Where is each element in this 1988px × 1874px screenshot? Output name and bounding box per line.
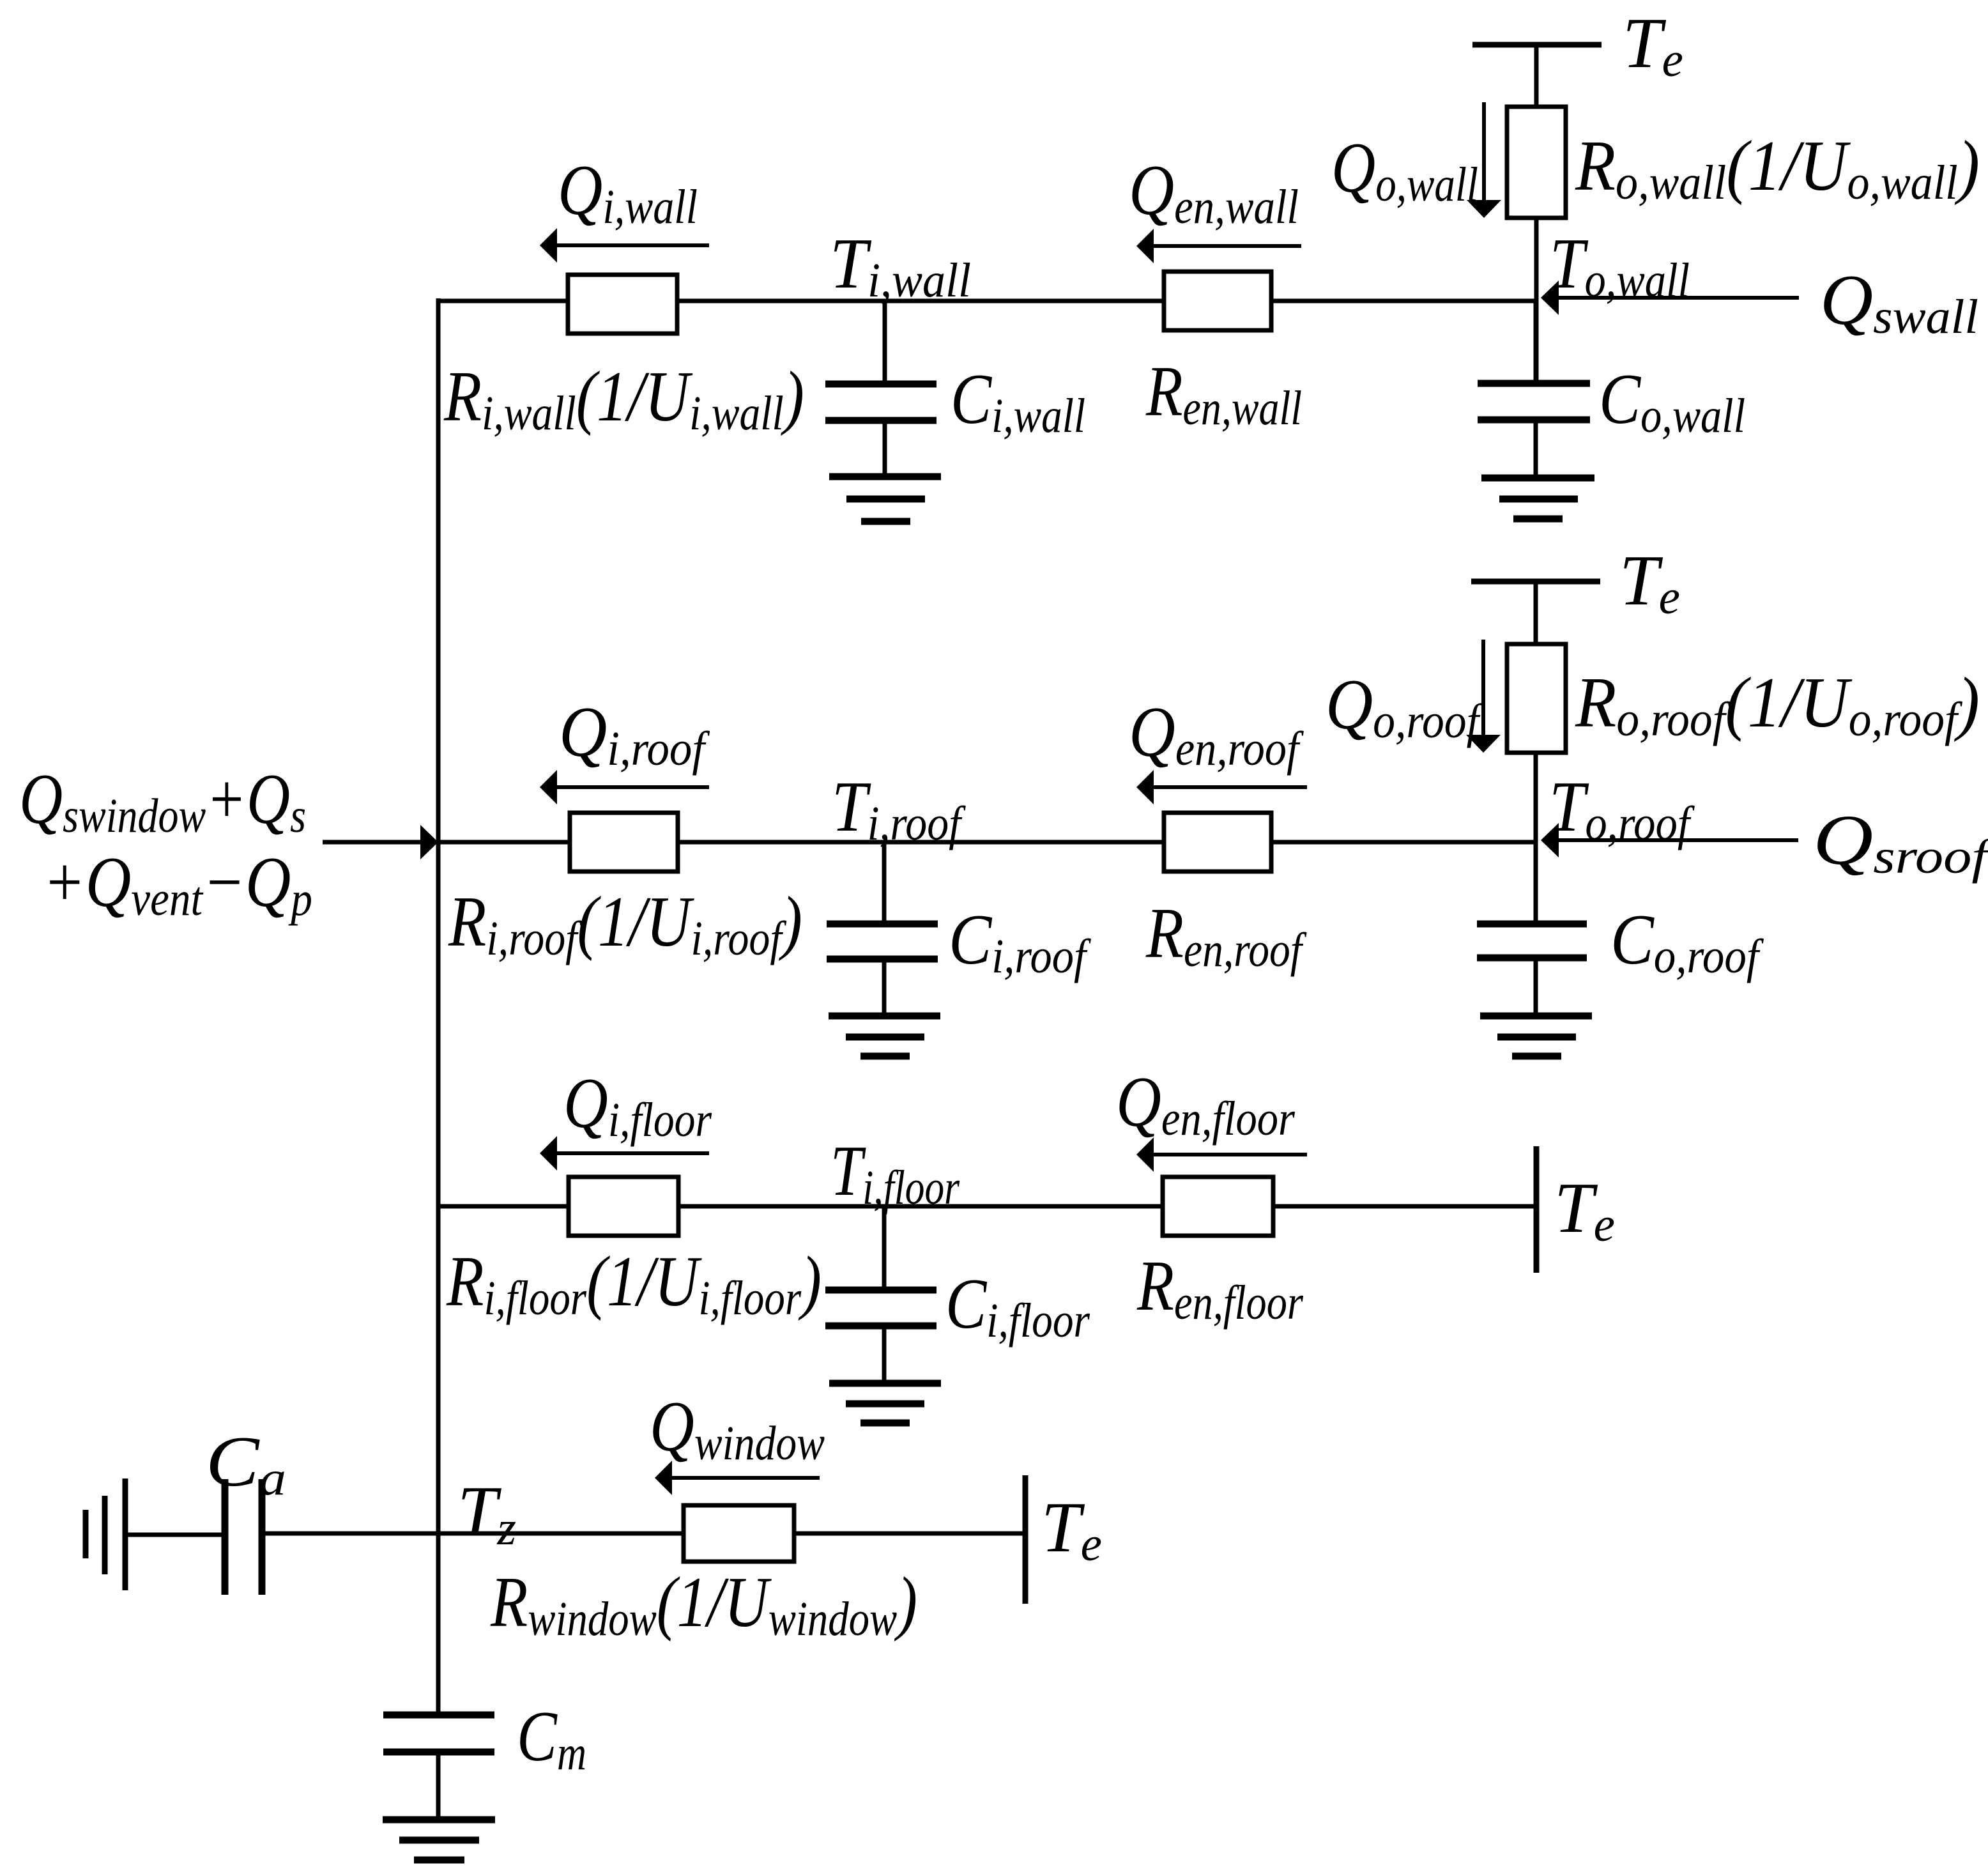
terminal T_e top (roof) xyxy=(1471,581,1600,644)
svg-text:Qen,wall: Qen,wall xyxy=(1129,151,1299,234)
heat flow arrow Q_i,roof xyxy=(540,770,709,804)
svg-text:Cm: Cm xyxy=(517,1697,586,1780)
heat flow arrow Q_o,roof (down) xyxy=(1466,640,1501,753)
wire wall row middle segment xyxy=(677,299,1536,303)
svg-text:Te: Te xyxy=(1041,1488,1102,1571)
svg-text:Qi,floor: Qi,floor xyxy=(563,1064,712,1147)
heat flow arrow Q_o,wall (down) xyxy=(1467,102,1501,218)
svg-text:Ren,roof: Ren,roof xyxy=(1145,894,1307,977)
heat gains input arrow into zone node xyxy=(323,825,438,859)
svg-text:To,wall: To,wall xyxy=(1550,224,1690,307)
capacitor C_i,roof xyxy=(827,842,938,1016)
heat flow arrow Q_swall (into node) xyxy=(1541,280,1799,315)
svg-text:Co,wall: Co,wall xyxy=(1599,360,1745,443)
wire from C_a to R_window xyxy=(262,1532,684,1536)
svg-text:Tz: Tz xyxy=(457,1472,516,1555)
svg-text:Ci,roof: Ci,roof xyxy=(949,900,1091,983)
resistor R_en,floor xyxy=(1163,1177,1273,1236)
svg-text:Te: Te xyxy=(1554,1169,1615,1252)
capacitor C_a (series) xyxy=(225,1479,262,1595)
heat flow arrow Q_i,wall xyxy=(540,228,709,263)
svg-text:Ri,floor(1/Ui,floor): Ri,floor(1/Ui,floor) xyxy=(446,1242,822,1325)
resistor R_i,roof xyxy=(570,813,678,872)
resistor R_i,floor xyxy=(569,1177,678,1236)
wire floor row left segment xyxy=(436,1204,569,1209)
resistor R_o,wall xyxy=(1507,107,1566,218)
ground under C_i,wall xyxy=(829,477,941,521)
resistor R_en,wall xyxy=(1164,272,1271,330)
svg-text:Ri,roof(1/Ui,roof): Ri,roof(1/Ui,roof) xyxy=(448,882,802,965)
wire roof row left segment xyxy=(436,840,570,845)
svg-text:Ri,wall(1/Ui,wall): Ri,wall(1/Ui,wall) xyxy=(443,357,804,440)
svg-text:Ci,floor: Ci,floor xyxy=(945,1264,1090,1348)
ground under C_i,floor xyxy=(829,1383,941,1423)
node T_o,roof junction vertical wire xyxy=(1534,753,1538,924)
svg-text:Ti,roof: Ti,roof xyxy=(832,767,966,850)
heat flow arrow Q_en,roof xyxy=(1136,770,1307,804)
svg-text:Qswall: Qswall xyxy=(1820,261,1978,344)
ground under C_m xyxy=(383,1820,495,1860)
svg-text:Qwindow: Qwindow xyxy=(650,1387,825,1470)
wire wall row left segment xyxy=(436,299,568,303)
svg-text:Ro,wall(1/Uo,wall): Ro,wall(1/Uo,wall) xyxy=(1575,127,1980,210)
ground under C_o,roof xyxy=(1480,1016,1592,1056)
node T_o,wall junction vertical wire xyxy=(1534,218,1539,384)
svg-text:To,roof: To,roof xyxy=(1549,767,1695,850)
wire from R_window to Te xyxy=(794,1532,1025,1536)
wire from ground to C_a xyxy=(125,1533,225,1537)
heat flow arrow Q_en,wall xyxy=(1136,229,1301,263)
svg-text:Qo,wall: Qo,wall xyxy=(1331,128,1478,211)
svg-text:Ren,wall: Ren,wall xyxy=(1145,352,1302,435)
terminal T_e right (floor) xyxy=(1534,1146,1540,1273)
svg-text:Qo,roof: Qo,roof xyxy=(1326,665,1484,748)
heat flow arrow Q_i,floor xyxy=(540,1136,709,1171)
wire floor row right segment to Te xyxy=(678,1204,1536,1209)
svg-text:Ci,wall: Ci,wall xyxy=(951,360,1085,443)
capacitor C_o,roof xyxy=(1477,924,1587,1016)
resistor R_en,roof xyxy=(1164,813,1271,872)
capacitor C_m xyxy=(383,1533,494,1820)
resistor R_i,wall xyxy=(568,275,677,334)
capacitor C_o,wall xyxy=(1478,301,1590,478)
resistor R_o,roof xyxy=(1507,644,1566,753)
wire roof row middle segment xyxy=(678,840,1536,845)
svg-text:Qen,roof: Qen,roof xyxy=(1129,693,1304,776)
capacitor C_i,floor xyxy=(825,1206,937,1383)
terminal T_e right (window) xyxy=(1023,1475,1028,1604)
svg-text:Te: Te xyxy=(1623,4,1683,87)
svg-text:Ro,roof(1/Uo,roof): Ro,roof(1/Uo,roof) xyxy=(1575,663,1980,746)
ground under C_o,wall xyxy=(1481,478,1594,519)
svg-text:Ca: Ca xyxy=(206,1422,286,1505)
svg-text:Ti,floor: Ti,floor xyxy=(830,1132,960,1215)
svg-text:Qswindow+Qs: Qswindow+Qs xyxy=(19,760,306,843)
svg-text:Qen,floor: Qen,floor xyxy=(1116,1063,1295,1146)
svg-text:Te: Te xyxy=(1619,541,1680,624)
ground under C_i,roof xyxy=(829,1016,940,1056)
svg-text:Rwindow(1/Uwindow): Rwindow(1/Uwindow) xyxy=(490,1563,917,1646)
svg-text:Co,roof: Co,roof xyxy=(1610,900,1764,983)
heat flow arrow Q_en,floor xyxy=(1136,1137,1307,1172)
svg-text:Ren,floor: Ren,floor xyxy=(1136,1247,1303,1330)
svg-text:Ti,wall: Ti,wall xyxy=(830,224,971,307)
node Tz/Ti zone bus (vertical wire) xyxy=(436,298,441,1533)
capacitor C_i,wall xyxy=(825,301,937,477)
resistor R_window xyxy=(684,1505,794,1562)
svg-text:+Qvent−Qp: +Qvent−Qp xyxy=(43,843,312,926)
terminal T_e top (wall) xyxy=(1472,45,1602,107)
svg-text:Qi,wall: Qi,wall xyxy=(558,151,698,234)
svg-text:Qsroof: Qsroof xyxy=(1813,801,1988,884)
heat flow arrow Q_sroof (into node) xyxy=(1541,823,1798,857)
ground left (Tz row source ground) xyxy=(86,1478,125,1590)
svg-text:Qi,roof: Qi,roof xyxy=(559,693,710,776)
heat flow arrow Q_window xyxy=(655,1461,820,1495)
